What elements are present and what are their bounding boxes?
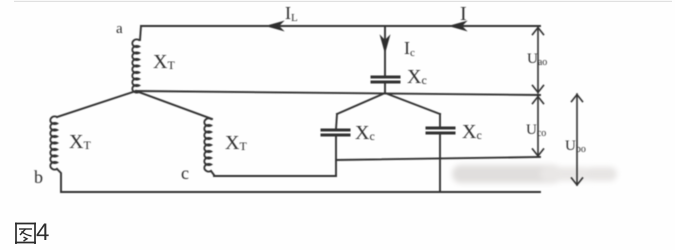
capacitor XC left: upper plate [322,129,349,132]
svg-text:XT: XT [225,132,247,154]
svg-text:a: a [116,21,123,37]
dimension arrow Ubo [572,94,583,185]
wire: right capacitor bottom lead down to bottom rail [439,133,441,192]
svg-text:Xc: Xc [355,122,375,144]
svg-text:XT: XT [69,131,91,153]
capacitor XC right: upper plate [427,127,454,130]
wire: right capacitor top lead [439,114,441,127]
caption 图4 [14,219,49,247]
current arrow IL on top bus [267,22,283,31]
capacitor XC top: lower plate [372,81,399,84]
top separator line [14,1,672,2]
wire: Uco baseline from left capacitor leg to right [336,157,540,160]
wire: top bus from node a to right end [141,25,540,27]
wire: diagonal to coil c [136,91,212,119]
watermark blur patch right [585,167,617,181]
capacitor XC left: lower plate [322,134,349,137]
inductor XT phase b (coil) [50,116,57,169]
svg-text:c: c [181,163,189,183]
wire: top capacitor to neutral bus [384,82,386,93]
capacitor XC right: lower plate [427,132,454,135]
inductor XT phase a (coil) [132,39,139,92]
current arrow Ic on capacitor branch [381,36,390,52]
wire: coil b bottom to bottom rail [57,169,61,192]
svg-text:b: b [34,167,43,187]
wire: neutral bus from coil-a bottom to right side [136,91,540,95]
wire: coil c bottom to junction under left capacitor [211,171,336,176]
wire: drop from top bus to coil a [140,26,141,40]
svg-text:Ubo: Ubo [565,138,586,155]
svg-text:Xc: Xc [407,66,427,88]
current arrow I on top bus [450,22,466,31]
wire: diagonal from neutral junction to right capacitor [385,93,440,114]
wire: bottom rail [61,191,540,193]
dimension arrow Uao [533,27,544,93]
capacitor XC top: upper plate [372,76,399,79]
dimension arrow Uco [533,96,544,156]
wire: left capacitor bottom lead down to coil-c wire [335,135,337,176]
svg-text:XT: XT [153,51,175,73]
wire: left capacitor top lead [336,114,337,129]
watermark blur patch middle [540,167,590,181]
svg-text:Uco: Uco [526,122,546,139]
wire: capacitor branch drop from top bus [384,26,386,76]
svg-text:IL: IL [285,3,298,24]
wire: diagonal from neutral junction to left capacitor [337,93,385,114]
inductor XT phase c (coil) [204,118,211,171]
svg-text:Uao: Uao [527,51,547,68]
wire: diagonal to coil b [57,91,136,117]
svg-text:I: I [460,3,467,25]
watermark blur patch left [452,165,617,183]
svg-text:Xc: Xc [462,121,482,143]
svg-text:Ic: Ic [404,38,415,59]
